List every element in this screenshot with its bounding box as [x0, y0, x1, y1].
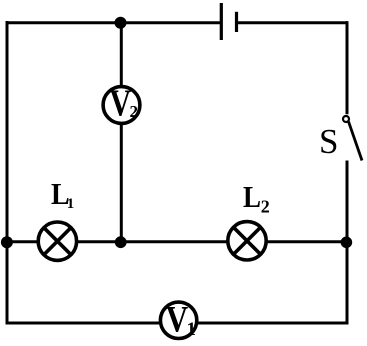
lamp L2: [228, 222, 266, 260]
wire: top side, right of battery: [238, 21, 348, 24]
wire: left vertical side: [6, 21, 9, 324]
battery short plate: [235, 12, 238, 32]
wire: middle horizontal branch with lamps: [6, 240, 349, 243]
junction node: right end of lamp branch: [341, 237, 353, 249]
svg-text:S: S: [319, 122, 338, 161]
svg-text:1: 1: [187, 319, 197, 340]
voltmeter V2: [103, 82, 140, 124]
junction node: left end of lamp branch: [1, 236, 13, 248]
switch S pivot circle: [343, 116, 349, 122]
lamp L1: [38, 222, 76, 260]
junction node: middle of lamp branch: [115, 236, 127, 248]
wire: bottom side: [6, 322, 349, 325]
svg-text:L: L: [243, 180, 261, 214]
svg-text:2: 2: [130, 102, 139, 121]
wire: right side above switch: [346, 21, 349, 114]
junction node: top of V2 branch: [115, 17, 127, 29]
wire: V2 vertical branch: [120, 23, 123, 242]
battery long plate: [220, 3, 223, 40]
svg-text:2: 2: [261, 197, 270, 217]
wire: right side below switch: [346, 161, 349, 325]
wire: top side, left of battery: [6, 21, 221, 24]
svg-text:1: 1: [67, 196, 75, 212]
svg-text:V: V: [110, 82, 132, 124]
voltmeter V1: [160, 300, 196, 340]
lamp L2 label: [243, 180, 270, 216]
svg-text:V: V: [166, 300, 189, 340]
switch S blade: [349, 122, 363, 161]
lamp L1 label: [51, 178, 74, 212]
